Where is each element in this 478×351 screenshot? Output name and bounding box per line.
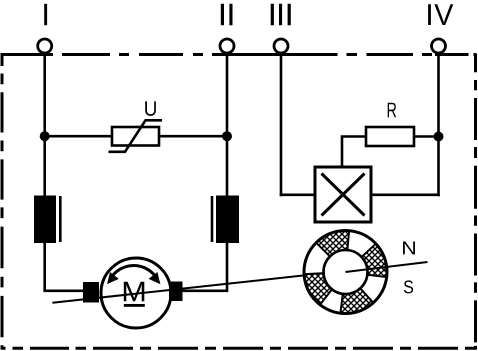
junction node left bbox=[40, 131, 50, 141]
border top bbox=[2, 53, 477, 56]
regulator X diagonal 1 bbox=[322, 174, 365, 216]
magnet ring inner bbox=[324, 250, 368, 294]
wire choke L2 to motor bbox=[182, 243, 227, 291]
wire resistor left bbox=[342, 137, 366, 168]
rotation arrow head right bbox=[150, 273, 160, 283]
magnet segment 1 bbox=[362, 244, 387, 277]
label M underline bbox=[124, 304, 145, 307]
brush left bbox=[83, 282, 99, 303]
label R bbox=[388, 103, 397, 118]
regulator X diagonal 2 bbox=[322, 174, 365, 216]
label IV bbox=[428, 4, 453, 25]
resistor R body bbox=[366, 127, 414, 146]
wire choke L1 to motor bbox=[45, 243, 84, 291]
rotation arrow head left bbox=[108, 273, 118, 283]
magnet ring outer bbox=[304, 231, 387, 314]
label III bbox=[271, 4, 291, 25]
wire regulator to IV bbox=[371, 194, 440, 197]
wire resistor right bbox=[414, 135, 439, 138]
choke L2 core bbox=[211, 196, 214, 242]
border left bbox=[1, 53, 4, 350]
junction node IV bbox=[434, 132, 444, 142]
label U bbox=[145, 101, 156, 116]
varistor U diagonal bbox=[109, 120, 163, 152]
wire varistor right bbox=[159, 135, 227, 138]
choke L1 body bbox=[34, 196, 56, 244]
wire III to regulator bbox=[280, 194, 315, 197]
choke L2 body bbox=[216, 196, 239, 244]
label N bbox=[403, 242, 415, 255]
label S bbox=[404, 280, 413, 293]
label I bbox=[44, 4, 47, 25]
terminal I circle bbox=[38, 39, 52, 53]
shaft line bbox=[52, 275, 304, 302]
wire terminal II vertical bbox=[226, 52, 229, 196]
pointer line N S bbox=[346, 262, 428, 272]
varistor U body bbox=[112, 127, 159, 146]
junction node right bbox=[222, 131, 232, 141]
choke L1 core bbox=[59, 196, 62, 242]
wire terminal IV vertical bbox=[437, 52, 440, 196]
border right bbox=[474, 54, 477, 350]
wire varistor left bbox=[45, 135, 112, 138]
label II bbox=[221, 4, 233, 25]
brush right bbox=[169, 282, 183, 302]
border bottom bbox=[2, 347, 477, 350]
wire terminal I vertical bbox=[43, 52, 46, 196]
terminal IV circle bbox=[432, 39, 446, 53]
label M bbox=[124, 282, 145, 302]
regulator U2 box bbox=[315, 167, 371, 222]
magnet segment 4 bbox=[340, 288, 373, 313]
rotation arrow arc bbox=[111, 266, 158, 279]
magnet segment 3 bbox=[304, 273, 332, 305]
motor M1 housing bbox=[101, 258, 171, 328]
magnet segment 2 bbox=[316, 231, 349, 257]
terminal III circle bbox=[274, 39, 288, 53]
terminal II circle bbox=[220, 39, 234, 53]
wire terminal III vertical bbox=[280, 52, 283, 196]
